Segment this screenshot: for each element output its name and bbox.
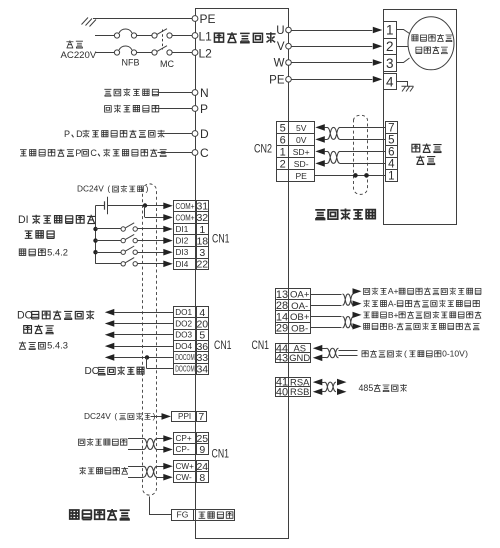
svg-text:D: D [200, 127, 209, 141]
terminal W (drive right) [286, 60, 292, 66]
label 编码器A-位置反馈信号分频输出 [363, 300, 479, 307]
motor chassis ground symbol [402, 86, 414, 91]
MC mechanical link (dashed) [162, 30, 164, 50]
wire to C [158, 152, 193, 154]
arrow into DI2 [163, 237, 173, 244]
svg-text:22: 22 [196, 259, 208, 271]
svg-text:5: 5 [199, 330, 205, 342]
connector CN2 block (5V/0V/SD+/SD-/PE) [277, 122, 289, 134]
label 义功能 [25, 231, 55, 239]
svg-text:L2: L2 [199, 47, 213, 61]
label 485通信接口 [374, 384, 407, 391]
svg-text:8: 8 [199, 472, 205, 484]
label 伺服电机 [416, 46, 448, 53]
motor pin 2 [384, 39, 397, 55]
terminal PE (drive right) [286, 77, 292, 83]
arrow into DI4 [163, 261, 173, 268]
svg-text:CP+: CP+ [176, 434, 192, 443]
wire switch to DI3 [137, 252, 163, 254]
connector CN1 DO block (DO1-DO4/DOCOM) [174, 307, 197, 318]
wire OB- out [311, 327, 342, 329]
svg-text:OA+: OA+ [290, 290, 310, 301]
connector CN1 AS/GND block [276, 344, 289, 353]
wire to P [158, 108, 193, 110]
arrow into motor pin 2 [373, 43, 383, 50]
arrow into AS [313, 345, 323, 352]
arrow into CP- [163, 446, 173, 453]
svg-text:CN1: CN1 [252, 340, 270, 352]
svg-text:0-10V: 0-10V [442, 349, 465, 359]
svg-text:5.4.2: 5.4.2 [47, 247, 68, 257]
wire to PPI [151, 416, 163, 418]
arrow out of DO2 20 [105, 320, 115, 327]
arrow out of DO1 4 [105, 309, 115, 316]
arrow encoder OA- out [353, 301, 362, 307]
svg-text:6: 6 [388, 147, 394, 159]
svg-text:COM+: COM+ [176, 202, 195, 211]
switch DI2 [121, 238, 125, 242]
svg-text:5: 5 [280, 122, 286, 134]
svg-text:DI1: DI1 [176, 225, 189, 234]
wire RSA segment [322, 382, 325, 384]
wire switch to DI4 [137, 263, 163, 265]
wire to encoder pin5 [340, 139, 385, 141]
junction dot bus DI3 [93, 250, 97, 254]
encoder pin 4 [386, 158, 398, 170]
motor pin 3 [384, 55, 397, 72]
shield junction dot right [364, 173, 369, 178]
motor pin 1 [384, 22, 397, 39]
connector CN1 OA/OB block [276, 289, 289, 300]
connector CN1 CW block [174, 461, 197, 472]
switch DI3 [121, 250, 125, 254]
terminal C [192, 150, 198, 156]
svg-text:9: 9 [199, 444, 205, 456]
svg-text:1: 1 [386, 23, 394, 38]
twisted pair AS/GND [327, 348, 339, 358]
wire DO4 36 out [114, 346, 173, 348]
wire L2 source segment [95, 52, 114, 54]
svg-text:GND: GND [289, 352, 310, 363]
encoder pin 1 [386, 170, 398, 182]
label 位置指令脉冲 [79, 438, 127, 445]
svg-text:DC24V: DC24V [84, 411, 111, 421]
wire PE from earth to drive [93, 18, 192, 20]
title 伺服驱动器 [214, 32, 275, 43]
breaker NFB pole 1 [114, 33, 119, 38]
svg-text:18: 18 [196, 235, 208, 247]
encoder pin 6 [386, 146, 398, 158]
contactor MC pole 2 [152, 50, 157, 55]
twisted pair 5V/0V [327, 127, 340, 139]
control cable shield (dashed capsule) [143, 184, 157, 495]
label DC24V （外部提供） (DI supply) [113, 185, 144, 192]
breaker NFB pole 2 [114, 50, 119, 55]
arrow encoder OB- out [353, 323, 362, 329]
label 金属壳体 cell [194, 510, 235, 521]
svg-text:CN1: CN1 [212, 448, 230, 460]
earth ground symbol (mains PE) [82, 18, 97, 27]
wire pin1 to motor circle [396, 30, 410, 34]
svg-text:RSB: RSB [290, 386, 309, 397]
wire bus to battery [96, 205, 105, 207]
arrow encoder OA+ out [353, 288, 362, 294]
encoder pin 7 [386, 122, 398, 134]
twisted pair OB [343, 317, 354, 328]
svg-text:5V: 5V [296, 123, 307, 133]
arrow into motor pin 1 [373, 27, 383, 34]
svg-text:1: 1 [388, 171, 394, 183]
twisted pair SD+/SD- [327, 151, 340, 163]
svg-text:43: 43 [276, 352, 288, 364]
label P、D短接时内置电阻生效 [83, 130, 165, 138]
svg-text:CN1: CN1 [212, 234, 230, 246]
wire battery to COM+ [108, 205, 164, 207]
terminal P [192, 106, 198, 112]
arrow into DI1 [163, 226, 173, 233]
wire CN2 5V segment [325, 127, 328, 129]
svg-text:DO3: DO3 [175, 331, 192, 340]
label 见章节5.4.3 [19, 342, 45, 350]
DI bus (vertical) [95, 206, 97, 264]
label 增量式标准 [412, 34, 452, 41]
battery DC24V negative plate [104, 201, 106, 209]
svg-text:DO: DO [17, 310, 33, 322]
svg-text:14: 14 [276, 311, 288, 323]
svg-text:DC24V: DC24V [77, 184, 104, 194]
wire CW- from label [128, 477, 144, 479]
svg-text:MC: MC [160, 59, 174, 69]
wire L2 MC to drive [172, 52, 192, 54]
wire CP- to arrow [157, 449, 164, 451]
wire CP- from label [128, 449, 144, 451]
wire shield to FG [150, 497, 172, 515]
svg-text:0V: 0V [296, 135, 307, 145]
wire to encoder pin4 [340, 163, 385, 165]
wire L1 MC to drive [172, 35, 192, 37]
connector FG cell [172, 510, 194, 521]
label 位置指令方向 [79, 467, 128, 474]
arrow into CN2 0V [315, 136, 325, 143]
switch DI1 [121, 227, 125, 231]
wire CN2 SD+ segment [325, 151, 328, 153]
svg-text:DO2: DO2 [175, 319, 192, 328]
wire switch to DI1 [137, 228, 163, 230]
svg-text:P: P [200, 102, 208, 116]
wire analog pair bottom [339, 355, 358, 357]
svg-text:A-: A- [388, 298, 397, 308]
label 直流母线正极 [105, 105, 159, 113]
svg-text:NFB: NFB [122, 58, 140, 68]
terminal V (drive right) [286, 43, 292, 49]
svg-text:29: 29 [276, 323, 288, 335]
wire bus to switch DI1 [96, 228, 121, 230]
twisted pair CP [144, 439, 158, 450]
label 编码器 [412, 144, 442, 153]
label DC24V （外部提供） (pulse supply) [119, 413, 150, 420]
shield junction dot left [353, 173, 358, 178]
connector CN1 DI block (COM+/DI1-DI4) [174, 201, 197, 212]
battery DC24V positive plate [107, 197, 109, 214]
svg-text:N: N [200, 86, 209, 100]
svg-text:DO: DO [85, 366, 100, 377]
contactor MC pole 1 [152, 33, 157, 38]
wire L2 NFB to MC [137, 52, 152, 54]
arrow into CP+ [163, 435, 173, 442]
svg-text:3: 3 [386, 56, 394, 71]
svg-text:DI3: DI3 [176, 248, 189, 257]
svg-text:CW+: CW+ [176, 462, 195, 471]
svg-text:DOCOM: DOCOM [175, 365, 195, 374]
svg-text:PE: PE [295, 171, 307, 181]
wire DO3 5 out [114, 334, 173, 336]
terminal U (drive right) [286, 27, 292, 33]
wire AS segment [322, 348, 327, 350]
svg-text:AC220V: AC220V [61, 50, 97, 61]
arrow into CN2 5V [315, 124, 325, 131]
arrow into motor pin 3 [373, 59, 383, 66]
wire pin3 to motor circle [396, 58, 410, 63]
arrow out of DOCOM 33 [105, 354, 115, 361]
svg-text:): ) [146, 184, 149, 194]
svg-text:5.4.3: 5.4.3 [47, 341, 68, 351]
wire to D [158, 133, 193, 135]
wire OB+ out [311, 316, 342, 318]
svg-text:OB+: OB+ [290, 312, 310, 323]
svg-text:SD+: SD+ [293, 147, 310, 157]
junction dot DOCOM [145, 355, 149, 359]
label 编码器A+位置反馈信号分频输出 [363, 288, 481, 295]
wire U to motor [291, 30, 372, 32]
arrow into COM+ 31 [163, 203, 173, 210]
svg-text:COM+: COM+ [176, 213, 195, 222]
label 义功能 (DO) [24, 325, 54, 334]
label 接口 [416, 156, 435, 165]
label 编码器B-位置反馈信号分频输出 [364, 323, 480, 330]
arrow into CW+ [163, 463, 173, 470]
junction dot COM+ branch [143, 203, 147, 207]
wire switch to DI2 [137, 240, 163, 242]
wire OA- out [311, 305, 342, 307]
wire branch to COM+ 32 [145, 217, 164, 219]
label 外接电阻接入P和C，同时断开短接片 [20, 149, 167, 157]
svg-text:PPI: PPI [178, 412, 191, 421]
svg-text:C: C [90, 148, 97, 158]
wire bus to switch DI3 [96, 252, 121, 254]
arrow into RSA [313, 379, 323, 386]
wire CW+ from label [128, 466, 144, 468]
svg-text:DI4: DI4 [176, 260, 189, 269]
svg-text:P: P [75, 148, 81, 158]
twisted pair CW [144, 466, 158, 477]
svg-text:DOCOM: DOCOM [175, 353, 195, 362]
label DO输出公共端 [98, 366, 144, 375]
servo motor circle [408, 17, 454, 70]
arrow into RSB [313, 388, 323, 395]
wire CN2 PE to encoder pin1 [314, 175, 385, 177]
wire DO2 20 out [114, 323, 173, 325]
wire pin4 to chassis ground [396, 82, 408, 87]
svg-text:1: 1 [280, 146, 286, 158]
terminal PE (drive left) [192, 16, 198, 22]
wire CW- to arrow [157, 477, 164, 479]
svg-text:OB-: OB- [291, 323, 308, 334]
arrow encoder OB+ out [353, 312, 362, 318]
svg-text:32: 32 [196, 212, 208, 224]
svg-text:7: 7 [388, 123, 394, 135]
svg-text:31: 31 [196, 201, 208, 213]
wire L1 NFB to MC [137, 35, 152, 37]
junction dot bus DI1 [93, 227, 97, 231]
svg-text:6: 6 [280, 134, 286, 146]
svg-text:PE: PE [200, 12, 216, 26]
terminal N [192, 90, 198, 96]
terminal D [192, 131, 198, 137]
label 见章节5.4.2 [19, 249, 45, 256]
wire CW+ to arrow [157, 466, 164, 468]
wire V to motor [291, 46, 372, 48]
svg-text:20: 20 [196, 318, 208, 330]
switch DI4 [121, 262, 125, 266]
wire to N [158, 92, 193, 94]
wire CN2 0V segment [325, 139, 328, 141]
arrow into CN2 SD+ [315, 148, 325, 155]
wire CP+ from label [128, 438, 144, 440]
arrow into motor pin 4 [373, 76, 383, 83]
label 直流母线负极 [104, 88, 158, 96]
label DI输入用户自定 [32, 215, 95, 224]
encoder cable shield (dashed capsule) [354, 115, 368, 194]
wire COM+ branch down [144, 206, 146, 218]
svg-text:W: W [274, 58, 285, 70]
arrow into COM+ 32 [163, 214, 173, 221]
wire bus to switch DI4 [96, 263, 121, 265]
wire analog pair top [339, 350, 358, 352]
arrow into PPI [162, 413, 172, 420]
svg-text:33: 33 [196, 352, 208, 364]
wire to encoder pin7 [340, 127, 385, 129]
wire DOCOM 33 out [114, 357, 173, 359]
svg-text:4: 4 [388, 159, 395, 171]
connector CN1 CP block [174, 433, 197, 444]
svg-text:40: 40 [276, 386, 288, 398]
svg-text:FG: FG [177, 510, 189, 520]
svg-text:B-: B- [388, 321, 397, 331]
svg-text:(: ( [114, 411, 117, 421]
svg-text:): ) [465, 349, 468, 359]
wire branch to DOCOM 34 [147, 368, 174, 370]
connector CN1 RSA/RSB block [276, 378, 289, 387]
svg-text:7: 7 [198, 411, 204, 423]
arrow into CW- [163, 474, 173, 481]
arrow out of DO3 5 [105, 332, 115, 339]
wire L1 source segment [95, 35, 114, 37]
svg-text:C: C [200, 146, 209, 160]
wire PE to motor [291, 79, 372, 81]
label 单相 AC220V [66, 40, 83, 48]
terminal L1 [192, 33, 198, 39]
wire CP+ to arrow [157, 438, 164, 440]
arrow into GND [313, 355, 323, 362]
svg-text:B+: B+ [388, 310, 399, 320]
motor box [384, 10, 457, 225]
svg-text:A+: A+ [388, 286, 399, 296]
svg-text:PE: PE [269, 74, 285, 86]
svg-text:CN1: CN1 [214, 340, 232, 352]
twisted pair OA [343, 294, 354, 305]
svg-text:34: 34 [196, 364, 208, 376]
wire CN2 SD- segment [325, 163, 328, 165]
servo drive box (伺服驱动器) [196, 9, 289, 539]
svg-text:2: 2 [386, 39, 394, 54]
twisted pair RSA/RSB [325, 382, 337, 392]
svg-text:DO1: DO1 [175, 308, 192, 317]
wire OA+ out [311, 294, 342, 296]
wire RSB segment [322, 391, 325, 393]
svg-text:(: ( [107, 184, 110, 194]
svg-text:U: U [276, 25, 284, 37]
wire bus to switch DI2 [96, 240, 121, 242]
svg-text:SD-: SD- [294, 159, 309, 169]
wire W to motor [291, 62, 372, 64]
svg-text:CW-: CW- [176, 473, 192, 482]
wire to encoder pin6 [340, 151, 385, 153]
label 屏蔽层连接 (bottom) [70, 509, 130, 520]
svg-text:L1: L1 [199, 30, 213, 44]
svg-text:485: 485 [359, 383, 374, 393]
svg-text:V: V [277, 41, 285, 53]
wire GND segment [322, 357, 327, 359]
svg-text:D: D [76, 129, 83, 139]
svg-text:DI2: DI2 [176, 237, 189, 246]
wire DOCOM branch down [146, 357, 148, 368]
label DO输出用户自定 [31, 310, 94, 319]
arrow into DI3 [163, 249, 173, 256]
label 编码器B+位置反馈信号分频输出 [363, 311, 481, 318]
svg-text:CN2: CN2 [254, 144, 272, 156]
arrow RSA out [337, 379, 347, 386]
junction dot bus DI2 [93, 238, 97, 242]
svg-text:5: 5 [388, 135, 394, 147]
svg-text:CP-: CP- [176, 445, 190, 454]
svg-text:P: P [64, 129, 70, 139]
svg-text:2: 2 [280, 158, 286, 170]
svg-text:DO4: DO4 [175, 342, 192, 351]
label 模拟量输入（电压范围0-10V） [362, 350, 441, 357]
motor pin 4 [384, 74, 397, 90]
svg-text:(: ( [404, 349, 407, 359]
svg-text:4: 4 [386, 74, 394, 89]
wire DO1 4 out [114, 312, 173, 314]
arrow into CN2 SD- [315, 160, 325, 167]
connector CN1 PPI [172, 412, 197, 422]
svg-text:DI: DI [18, 214, 29, 226]
arrow RSB out [337, 388, 347, 395]
terminal L2 [192, 50, 198, 56]
encoder pin 5 [386, 134, 398, 146]
wire pin2 to motor circle [396, 46, 408, 48]
arrow out of DO4 36 [105, 343, 115, 350]
label 屏蔽层连接 (encoder) [315, 209, 375, 220]
svg-text:3: 3 [199, 247, 205, 259]
